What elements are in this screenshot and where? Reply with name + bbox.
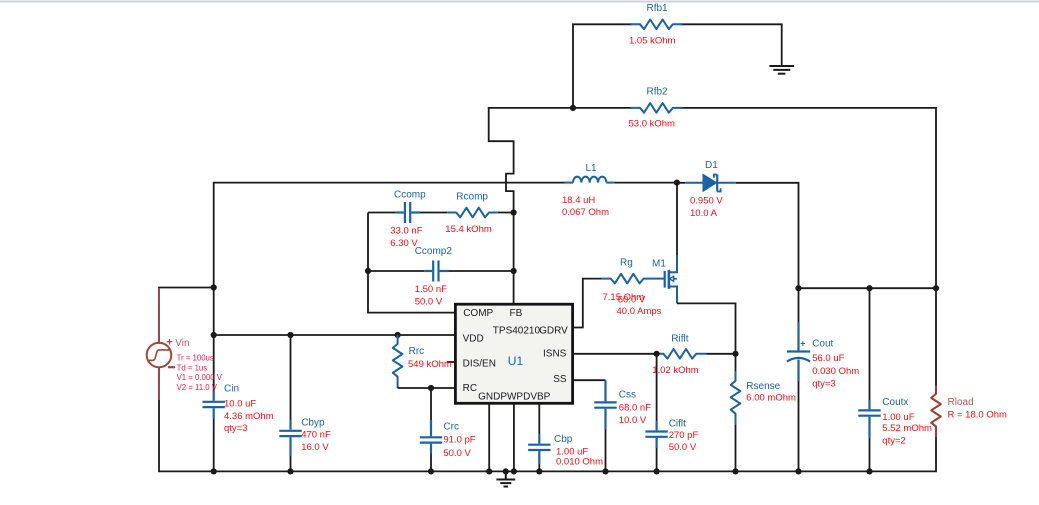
capacitor Coutx: [858, 288, 880, 471]
svg-text:Rload: Rload: [948, 397, 974, 408]
svg-text:V1 = 0.000 V: V1 = 0.000 V: [177, 373, 223, 382]
svg-text:Crc: Crc: [443, 422, 459, 433]
svg-text:470 nF: 470 nF: [301, 430, 331, 441]
wire: output top link: [799, 287, 937, 289]
svg-text:Rfb1: Rfb1: [647, 3, 669, 14]
svg-text:1.00 uF: 1.00 uF: [556, 446, 588, 457]
svg-text:68.0 nF: 68.0 nF: [619, 403, 651, 414]
svg-text:L1: L1: [586, 163, 598, 174]
svg-text:15.4 kOhm: 15.4 kOhm: [445, 224, 492, 235]
ground G2 below rail: [496, 471, 515, 486]
svg-text:1.50 nF: 1.50 nF: [415, 284, 447, 295]
pin GND stub: [488, 403, 490, 471]
svg-text:qty=3: qty=3: [812, 379, 836, 390]
svg-text:1.00 uF: 1.00 uF: [882, 412, 914, 423]
svg-text:GNDPWPDVBP: GNDPWPDVBP: [478, 392, 551, 403]
svg-text:Rcomp: Rcomp: [456, 192, 488, 203]
svg-text:53.0 kOhm: 53.0 kOhm: [629, 118, 676, 129]
svg-text:DIS/EN: DIS/EN: [463, 358, 496, 369]
resistor Rsense: [731, 354, 741, 472]
svg-text:18.4 uH: 18.4 uH: [562, 195, 595, 206]
wire: M1 drain to switch node: [676, 183, 678, 255]
pin DIS/EN stub: [447, 361, 456, 363]
ground G1 top right: [770, 66, 793, 74]
svg-text:Cbyp: Cbyp: [301, 418, 325, 429]
svg-text:60.0 V: 60.0 V: [618, 295, 646, 306]
svg-text:Td = 1us: Td = 1us: [177, 363, 208, 372]
wire: node to D1 anode: [677, 182, 685, 184]
svg-text:Rrc: Rrc: [409, 346, 425, 357]
wire: comp network left branch to COMP pin: [368, 213, 455, 313]
svg-text:Ccomp: Ccomp: [394, 190, 426, 201]
svg-text:549 kOhm: 549 kOhm: [408, 359, 452, 370]
wire: D1 to output node: [736, 183, 799, 288]
svg-text:+: +: [800, 339, 805, 349]
resistor Rfb1: [631, 20, 681, 30]
resistor Rfb2: [631, 103, 681, 113]
capacitor Ciflt: [645, 354, 667, 472]
node: Vin tee: [211, 284, 217, 290]
wire: Rfb1 top line: [573, 24, 631, 108]
op-amp U1 IC TPS40210 box: [455, 304, 572, 403]
node: bottom rail junctions: [211, 468, 873, 474]
svg-text:TPS40210: TPS40210: [493, 325, 541, 336]
svg-text:qty=3: qty=3: [224, 423, 248, 434]
svg-text:91.0 pF: 91.0 pF: [443, 435, 475, 446]
svg-text:M1: M1: [652, 258, 666, 269]
capacitor Ccomp2: [368, 261, 514, 282]
resistor Rcomp: [447, 208, 498, 218]
svg-text:270 pF: 270 pF: [669, 430, 699, 441]
svg-text:RC: RC: [463, 383, 477, 394]
wire: VDD line: [214, 334, 456, 336]
svg-text:D1: D1: [705, 160, 718, 171]
svg-text:1.05 kOhm: 1.05 kOhm: [629, 36, 676, 47]
svg-text:+: +: [166, 337, 172, 349]
svg-text:5.52 mOhm: 5.52 mOhm: [882, 423, 932, 434]
svg-text:Vin: Vin: [175, 338, 189, 349]
svg-text:10.0 V: 10.0 V: [619, 415, 647, 426]
svg-text:COMP: COMP: [463, 308, 493, 319]
capacitor Css: [594, 380, 616, 471]
capacitor Cbp: [528, 403, 550, 471]
node: comp junctions: [365, 268, 371, 274]
capacitor Cout (polarized): [787, 288, 810, 471]
wire: Rfb2 line left: [489, 107, 632, 109]
svg-text:ISNS: ISNS: [543, 349, 567, 360]
svg-text:0.950 V: 0.950 V: [690, 196, 723, 207]
wire: Rfb1 right to ground: [682, 24, 782, 65]
svg-text:40.0 Amps: 40.0 Amps: [617, 306, 662, 317]
svg-text:0.067 Ohm: 0.067 Ohm: [562, 207, 609, 218]
svg-text:FB: FB: [510, 308, 523, 319]
resistor Rrc: [393, 335, 403, 388]
wire: Rfb2 line right to right rail: [682, 108, 936, 386]
resistor Rg: [601, 274, 650, 284]
pin PWPD stub: [513, 403, 515, 471]
svg-text:50.0 V: 50.0 V: [443, 448, 471, 459]
svg-text:Coutx: Coutx: [882, 397, 908, 408]
diode D1: [685, 174, 736, 191]
wire: FB riser with jog: [489, 108, 514, 304]
node: junction Rfb1/Rfb2: [570, 105, 576, 111]
svg-text:U1: U1: [508, 354, 524, 368]
svg-text:qty=2: qty=2: [882, 436, 906, 447]
wire: SS to Css: [573, 379, 606, 381]
svg-text:10.0 uF: 10.0 uF: [224, 398, 256, 409]
svg-text:56.0 uF: 56.0 uF: [812, 353, 844, 364]
svg-text:1.02 kOhm: 1.02 kOhm: [652, 365, 699, 376]
wire: Vin node to L1: [159, 288, 214, 343]
svg-text:SS: SS: [553, 374, 567, 385]
svg-text:6.00 mOhm: 6.00 mOhm: [746, 392, 796, 403]
svg-text:Ccomp2: Ccomp2: [415, 246, 453, 257]
svg-text:0.010 Ohm: 0.010 Ohm: [556, 457, 603, 468]
canvas top border: [0, 1, 1039, 3]
svg-text:33.0 nF: 33.0 nF: [390, 225, 422, 236]
capacitor Cbyp: [279, 335, 301, 471]
wire: L1 to D1 node: [615, 182, 677, 184]
svg-text:R = 18.0 Ohm: R = 18.0 Ohm: [948, 410, 1007, 421]
svg-text:GDRV: GDRV: [539, 325, 568, 336]
svg-text:Rsense: Rsense: [746, 381, 780, 392]
wire: M1 source to sense node: [677, 303, 736, 353]
svg-text:Tr = 100us: Tr = 100us: [177, 354, 214, 363]
inductor L1: [564, 177, 615, 183]
capacitor Ccomp: [368, 202, 447, 223]
resistor Riflt: [657, 349, 707, 359]
svg-text:Cin: Cin: [224, 384, 239, 395]
transistor M1: [650, 255, 677, 303]
svg-text:V2 = 11.0 V: V2 = 11.0 V: [177, 383, 218, 392]
svg-text:VDD: VDD: [463, 334, 484, 345]
node: switch node: [674, 180, 680, 186]
resistor Rload: [931, 386, 941, 437]
node: output junctions: [795, 285, 801, 291]
wire: ISNS line: [573, 353, 657, 355]
svg-text:Rg: Rg: [620, 258, 633, 269]
svg-text:Ciflt: Ciflt: [669, 418, 686, 429]
svg-text:16.0 V: 16.0 V: [301, 442, 329, 453]
svg-text:Cout: Cout: [812, 338, 833, 349]
wire: input column x=213.7: [214, 183, 565, 391]
wire: GDRV to Rg: [573, 279, 601, 328]
source Vin: [147, 288, 175, 400]
node: VDD tees: [211, 332, 217, 338]
svg-text:4.36 mOhm: 4.36 mOhm: [224, 411, 274, 422]
svg-text:Cbp: Cbp: [554, 434, 573, 445]
wire: bottom ground rail: [159, 368, 936, 472]
capacitor Cin: [203, 391, 225, 472]
svg-text:Riflt: Riflt: [671, 333, 688, 344]
svg-text:0.030 Ohm: 0.030 Ohm: [812, 366, 859, 377]
svg-text:Rfb2: Rfb2: [647, 86, 669, 97]
svg-text:Css: Css: [619, 389, 636, 400]
capacitor Crc: [420, 388, 442, 471]
svg-text:50.0 V: 50.0 V: [415, 297, 443, 308]
svg-text:50.0 V: 50.0 V: [669, 442, 697, 453]
svg-text:10.0 A: 10.0 A: [690, 208, 718, 219]
